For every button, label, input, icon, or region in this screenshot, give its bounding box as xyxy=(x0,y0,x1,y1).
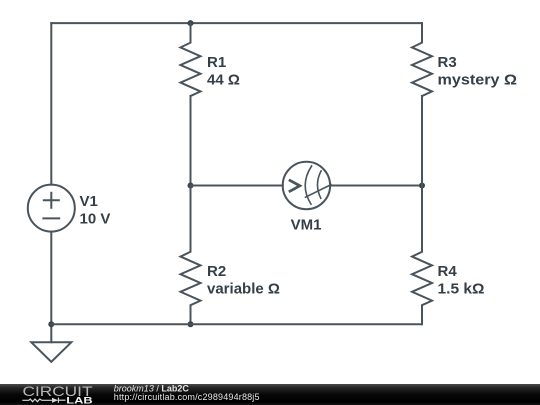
svg-text:VM1: VM1 xyxy=(291,217,322,234)
svg-text:1.5 kΩ: 1.5 kΩ xyxy=(438,281,485,298)
svg-text:10 V: 10 V xyxy=(80,210,111,227)
svg-text:R3: R3 xyxy=(438,54,457,71)
voltage source V1 xyxy=(28,185,75,232)
resistor R2 xyxy=(181,186,201,325)
node junction middle-left xyxy=(188,183,194,189)
wire middle horizontal left xyxy=(191,185,283,187)
resistor R3 xyxy=(412,23,432,96)
svg-text:R1: R1 xyxy=(207,54,226,71)
wire middle horizontal right xyxy=(330,185,422,187)
node junction top (middle rail / top wire) xyxy=(188,20,194,26)
node junction middle-right xyxy=(419,183,425,189)
svg-text:R4: R4 xyxy=(438,263,458,280)
node junction bottom-left xyxy=(48,321,54,327)
voltmeter VM1 xyxy=(283,162,331,209)
ground xyxy=(31,342,71,362)
svg-text:mystery Ω: mystery Ω xyxy=(438,72,518,89)
svg-text:V1: V1 xyxy=(80,193,98,210)
resistor R4 xyxy=(412,186,432,325)
wire bottom horizontal xyxy=(51,323,422,325)
footer bar xyxy=(0,384,540,405)
wire left rail upper xyxy=(50,23,52,185)
wire top horizontal xyxy=(51,22,422,24)
resistor R1 xyxy=(181,23,201,96)
wire left rail lower xyxy=(50,232,52,343)
svg-text:http://circuitlab.com/c2989494: http://circuitlab.com/c2989494r88j5 xyxy=(114,392,260,402)
svg-text:R2: R2 xyxy=(207,263,226,280)
svg-text:LAB: LAB xyxy=(66,395,93,405)
wire right rail between R3 and node xyxy=(421,96,423,186)
CircuitLab logo resistor-diode glyph xyxy=(22,398,65,403)
svg-text:44 Ω: 44 Ω xyxy=(207,72,240,89)
node junction bottom-middle xyxy=(188,321,194,327)
svg-text:variable Ω: variable Ω xyxy=(207,281,280,298)
wire middle rail between R1 and node xyxy=(190,96,192,186)
